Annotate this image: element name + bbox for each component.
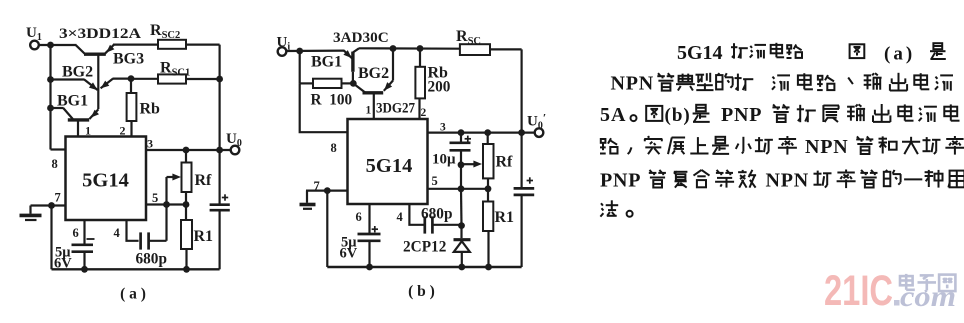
- svg-text:6: 6: [73, 226, 79, 240]
- svg-text:8: 8: [331, 141, 337, 155]
- wire R100 left (b): [300, 82, 313, 84]
- node 5u rail (a): [81, 266, 88, 273]
- svg-text:R1: R1: [194, 228, 214, 245]
- ground bar 2 (b): [303, 208, 312, 210]
- capacitor 680p right plate (b): [431, 216, 434, 233]
- svg-text:PNP: PNP: [721, 104, 762, 126]
- wire R1 bottom lead (b): [487, 231, 489, 267]
- wire pin 5 (b): [428, 188, 489, 190]
- capacitor 680p left plate (a): [139, 232, 142, 249]
- node BG1 base junction (a): [47, 105, 54, 112]
- capacitor 5u plate bottom (a): [72, 250, 94, 253]
- wire Rb top (b): [419, 49, 421, 67]
- wire pin 4 lead (a): [127, 220, 139, 241]
- wire BG1 bar to node (b): [352, 72, 354, 84]
- svg-text:3×3DD12A: 3×3DD12A: [59, 25, 141, 42]
- svg-text:BG3: BG3: [113, 51, 144, 68]
- node BG2 emitter rail (b): [390, 45, 397, 52]
- op-amp regulator IC 5G14 (a): [66, 137, 147, 221]
- transistor BG3 collector lead: [76, 45, 85, 54]
- svg-text:BG1: BG1: [57, 93, 88, 110]
- transistor BG1 bar (a): [68, 118, 89, 121]
- svg-text:10μ: 10μ: [432, 152, 456, 168]
- wire pin 6 lead (a): [83, 220, 85, 244]
- wire pin 8 (a): [51, 148, 66, 150]
- node right column output (a): [216, 147, 223, 154]
- wire pin 7 (a): [31, 204, 66, 206]
- node BG1 BG2 base (b): [350, 80, 357, 87]
- wire pin 3 output (b): [428, 132, 535, 134]
- capacitor output plus (a): [222, 197, 228, 199]
- capacitor 10u plate top (b): [450, 141, 471, 144]
- svg-text:2CP12: 2CP12: [403, 239, 446, 256]
- wire bottom rail (b): [327, 266, 521, 268]
- node Rb rail (b): [417, 45, 424, 52]
- svg-text:Rb: Rb: [140, 101, 161, 118]
- svg-text:1: 1: [366, 105, 372, 117]
- wire left rail (a): [49, 45, 51, 150]
- svg-text:NPN: NPN: [805, 136, 849, 158]
- transistor spine base line (a): [97, 55, 99, 110]
- resistor Rb (a): [127, 93, 137, 121]
- wire top rail (b): [359, 47, 460, 50]
- transistor BG3 bar (a): [84, 53, 106, 56]
- wire 680p to diode node (b): [433, 224, 461, 226]
- wire BG3 to Rsc2: [113, 43, 158, 45]
- capacitor 5u plate top (b): [358, 233, 381, 236]
- wire R1 top lead (b): [487, 189, 489, 202]
- transistor BG2 base diagonal (b): [354, 84, 365, 92]
- capacitor output plate bottom (b): [514, 194, 535, 197]
- terminal Ui input (b): [278, 47, 287, 56]
- transistor BG1 collector link (b): [353, 48, 359, 52]
- potentiometer Rf wiper arrow: [172, 174, 181, 181]
- transistor BG1 emitter diagonal (b): [344, 51, 352, 59]
- paragraph line 6: fa.: [601, 203, 603, 205]
- node right column Rsc1 (a): [216, 76, 223, 83]
- svg-text:5G14: 5G14: [677, 42, 723, 64]
- svg-text:(a): (a): [884, 44, 915, 65]
- resistor Rsc1 (a): [158, 74, 186, 83]
- node 10u top (b): [458, 129, 465, 136]
- wire wiper node to 680p node (b): [460, 189, 463, 226]
- wire pin 7 (b): [306, 190, 348, 192]
- svg-text:BG2: BG2: [358, 65, 389, 82]
- wire diode top lead (b): [460, 226, 462, 239]
- node Rf top (b): [484, 129, 491, 136]
- node Rf bottom R1 top (a): [183, 201, 190, 208]
- transistor BG3 emitter arrow: [106, 45, 114, 53]
- transistor BG1 collector arrow: [91, 110, 99, 118]
- ground bar (b): [300, 203, 316, 207]
- capacitor 10u plate bottom (b): [450, 149, 471, 152]
- capacitor 5u plus (b): [372, 228, 378, 230]
- wire Rb to pin 2: [130, 121, 132, 137]
- capacitor 680p right plate (a): [147, 232, 150, 249]
- svg-text:7: 7: [55, 191, 61, 205]
- wire Rf bottom lead: [185, 192, 187, 205]
- wire wiper down (a): [165, 177, 167, 241]
- capacitor 5u polarity dash (a): [87, 238, 95, 240]
- node wiper pin5 (a): [163, 201, 170, 208]
- transistor BG2 base diagonal: [84, 80, 97, 91]
- svg-text:3DG27: 3DG27: [376, 101, 415, 117]
- transistor BG2 base arrow: [89, 82, 98, 90]
- capacitor output plate top (a): [210, 203, 230, 206]
- wire Rsc1 to right column: [186, 78, 220, 80]
- wire R1 top lead (a): [185, 205, 187, 221]
- wire right column upper (b): [520, 49, 522, 132]
- resistor R1 (b): [483, 202, 493, 232]
- resistor R1 (a): [181, 220, 192, 249]
- node 5u rail (b): [366, 264, 373, 271]
- node 680p diode junction (b): [458, 222, 465, 229]
- svg-text:( b ): ( b ): [408, 283, 435, 300]
- wire 10u top lead (b): [460, 133, 462, 142]
- node right column output (b): [518, 129, 525, 136]
- wire BG2 base (a): [51, 78, 85, 80]
- node U1 rail junction (a): [47, 42, 54, 49]
- svg-text:( a ): ( a ): [120, 286, 146, 303]
- transistor BG2 emitter diagonal: [101, 79, 113, 88]
- transistor BG2 emitter diagonal (b): [384, 81, 393, 91]
- regulator IC 5G14 (b): [348, 119, 428, 204]
- potentiometer Rf (a): [182, 163, 192, 193]
- wire output cap top lead (b): [520, 133, 522, 188]
- node pin 7 (b): [324, 187, 331, 194]
- svg-text:4: 4: [114, 226, 121, 240]
- wire pin7 down to rail (a): [50, 206, 52, 270]
- svg-text:NPN: NPN: [766, 170, 810, 192]
- terminal U0 output (a): [231, 146, 240, 155]
- watermark dot: [894, 300, 900, 306]
- wire Rf bottom lead (b): [487, 178, 489, 188]
- node Ui rail junction (b): [296, 48, 303, 55]
- capacitor output plus (b): [527, 180, 533, 182]
- svg-text:PNP: PNP: [600, 170, 641, 192]
- ground bar (a): [20, 214, 42, 218]
- svg-text:6V: 6V: [340, 246, 358, 262]
- svg-text:2: 2: [120, 124, 126, 138]
- diode 2CP12 cathode bar (b): [454, 238, 471, 241]
- capacitor 5u plate bottom (b): [358, 239, 381, 242]
- wire BG1 base (a): [51, 107, 64, 109]
- ground stem (b): [306, 191, 308, 203]
- svg-text:5: 5: [432, 174, 438, 188]
- transistor BG3 emitter lead: [105, 45, 114, 54]
- svg-text:Rf: Rf: [195, 172, 213, 189]
- svg-text:680p: 680p: [136, 251, 167, 268]
- svg-text:5: 5: [152, 191, 158, 205]
- svg-text:4: 4: [397, 210, 404, 224]
- capacitor output plate bottom (a): [210, 209, 230, 212]
- svg-text:BG1: BG1: [311, 54, 342, 71]
- transistor BG1 emitter arrow (b): [343, 50, 351, 58]
- paragraph line 4: lu, shizhi shang shi xiao gonglu NPN guan he da gonglu: [601, 139, 606, 143]
- capacitor 5u plate top (a): [72, 243, 94, 246]
- svg-text:3: 3: [147, 137, 153, 151]
- wire BG2 emitter from rail (b): [392, 49, 394, 81]
- wire R1 bottom lead (a): [185, 249, 187, 269]
- resistor Rsc (b): [460, 44, 490, 55]
- wire pin7 down to rail (b): [326, 191, 328, 267]
- wire right column upper (a): [219, 45, 221, 150]
- svg-text:(b): (b): [665, 105, 691, 126]
- potentiometer Rf wiper shaft (b): [461, 163, 475, 165]
- wire pin 4 lead (b): [409, 204, 423, 225]
- wire Rsc2 to right column (a): [186, 43, 220, 45]
- wire U1 to BG3 (a): [39, 44, 77, 46]
- transistor BG2 emitter arrow (b): [384, 82, 392, 91]
- wire pin 3 output (a): [146, 149, 231, 151]
- wire pin 5 (a): [146, 203, 186, 205]
- wire output cap bottom lead (b): [520, 195, 522, 267]
- transistor BG2 emitter arrow: [101, 81, 110, 89]
- ground bar 2 (a): [25, 219, 37, 221]
- svg-text:NPN: NPN: [611, 73, 655, 95]
- node BG2 base junction (a): [47, 76, 54, 83]
- wire 5u to rail (b): [368, 241, 370, 267]
- wire R100 right (b): [342, 82, 355, 84]
- wire Rsc right (b): [490, 48, 522, 50]
- svg-text:R 100: R 100: [311, 92, 353, 109]
- transistor BG1 base diagonal: [63, 108, 73, 119]
- resistor R100 (b): [313, 79, 342, 88]
- wire bottom rail (a): [52, 268, 220, 270]
- node R1 rail (a): [183, 266, 190, 273]
- wire Rf top lead (b): [487, 133, 489, 144]
- svg-text:5G14: 5G14: [82, 170, 129, 192]
- potentiometer Rf wiper arrow (b): [473, 161, 482, 168]
- svg-text:680p: 680p: [421, 206, 452, 223]
- resistor Rsc2 (a): [158, 40, 186, 49]
- wire Ui to BG1 (b): [286, 49, 344, 52]
- transistor BG2 collector lead 3DG27 (b): [373, 94, 375, 119]
- wire pin 6 lead (b): [368, 204, 370, 233]
- potentiometer Rf (b): [483, 144, 494, 178]
- diode 2CP12 triangle (b): [454, 241, 470, 252]
- capacitor output plate top (b): [514, 187, 535, 190]
- transistor BG2 bar (b): [363, 91, 384, 94]
- svg-text:1: 1: [85, 124, 91, 138]
- wire 10u bottom lead (b): [460, 150, 462, 165]
- svg-text:Rf: Rf: [496, 154, 514, 171]
- node Rf top (a): [183, 147, 190, 154]
- wire output cap bottom lead (a): [219, 210, 221, 269]
- wire Rf top lead: [185, 150, 187, 163]
- wire 680p to wiper node (a): [150, 240, 167, 242]
- wire rail to pin 8 (b): [300, 83, 348, 132]
- wire BG2 emitter (a): [113, 77, 132, 79]
- wire wiper down (b): [460, 165, 462, 189]
- wire diode bottom lead (b): [461, 252, 463, 267]
- transistor BG1 bar (b): [351, 52, 354, 72]
- svg-text:8: 8: [52, 157, 58, 171]
- transistor BG1 collector diagonal: [89, 109, 98, 119]
- terminal U1 input (a): [30, 41, 39, 50]
- wire 5u to rail (a): [83, 252, 85, 270]
- node R1 rail (b): [485, 264, 492, 271]
- terminal U0 prime output (b): [535, 128, 544, 137]
- node pin7 ground junction (a): [48, 202, 55, 209]
- wire node to Rsc1: [131, 78, 158, 80]
- node diode rail (b): [458, 264, 465, 271]
- resistor Rb (b): [415, 67, 425, 99]
- capacitor 680p left plate (b): [423, 216, 426, 233]
- ground stem (a): [29, 206, 31, 214]
- node Rf bottom pin5 (b): [485, 185, 492, 192]
- svg-text:6: 6: [356, 210, 362, 224]
- svg-text:3AD30C: 3AD30C: [333, 29, 389, 46]
- svg-text:BG2: BG2: [62, 64, 93, 81]
- potentiometer Rf wiper arrow shaft: [167, 176, 175, 178]
- node Rsc1 Rb junction (a): [128, 75, 135, 82]
- wire Rb to pin 2 (b): [418, 98, 420, 119]
- capacitor 10u plus (b): [465, 138, 471, 140]
- wire Rb top lead (a): [130, 79, 132, 93]
- transistor BG1 emitter lead: [77, 121, 79, 137]
- node wiper pin5 (b): [458, 185, 465, 192]
- svg-text:R1: R1: [495, 209, 515, 226]
- svg-text:5A: 5A: [600, 104, 626, 126]
- svg-text:com: com: [900, 280, 956, 313]
- svg-text:200: 200: [428, 79, 451, 96]
- svg-text:21IC: 21IC: [824, 267, 893, 315]
- wire left rail (b): [299, 51, 301, 83]
- node wiper 10u (b): [458, 161, 465, 168]
- svg-text:5G14: 5G14: [366, 155, 413, 177]
- watermark dianzi wang: [900, 276, 913, 285]
- svg-text:2: 2: [421, 107, 427, 119]
- wire output cap top lead (a): [219, 150, 221, 204]
